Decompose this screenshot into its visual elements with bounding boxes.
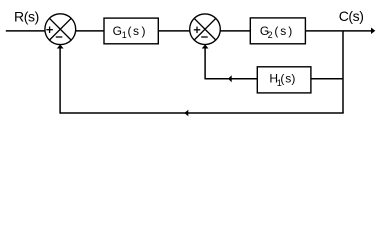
wire takeoff to H1 input [311, 78, 343, 80]
wire outer feedback right corner to bottom [60, 112, 344, 114]
wire S1 to G1 [76, 30, 104, 32]
minus sign at S2 [201, 36, 208, 38]
wire H1 output to corner [205, 78, 257, 80]
wire S2 to G2 [220, 30, 250, 32]
svg-text:R(s): R(s) [14, 9, 39, 25]
wire G1 to summer 2 [158, 30, 190, 32]
block G1 [104, 18, 158, 44]
svg-text:C(s): C(s) [339, 8, 364, 24]
summing junction S2 [190, 14, 221, 45]
block G2 [250, 18, 305, 44]
arrowhead on bottom feedback wire [184, 110, 188, 116]
svg-text:G2(s): G2(s) [260, 24, 292, 40]
wire input to summer 1 [6, 30, 46, 32]
svg-text:G1(s): G1(s) [113, 24, 146, 40]
block H1 [257, 67, 311, 93]
arrowhead on H1 feedback wire [228, 75, 232, 82]
plus sign at S2 [194, 27, 201, 33]
wire takeoff down right side [342, 31, 344, 113]
svg-text:H1(s): H1(s) [269, 72, 295, 88]
summing junction S1 [45, 14, 76, 45]
output arrowhead [371, 28, 375, 35]
arrowhead into S2 bottom [202, 44, 209, 48]
wire G2 to output [305, 30, 371, 32]
plus sign at S1 [46, 27, 53, 34]
arrowhead into S1 bottom [57, 44, 64, 48]
wire corner up to S2 [204, 46, 206, 79]
wire bottom left corner up to S1 [59, 46, 61, 114]
minus sign at S1 [56, 36, 63, 38]
